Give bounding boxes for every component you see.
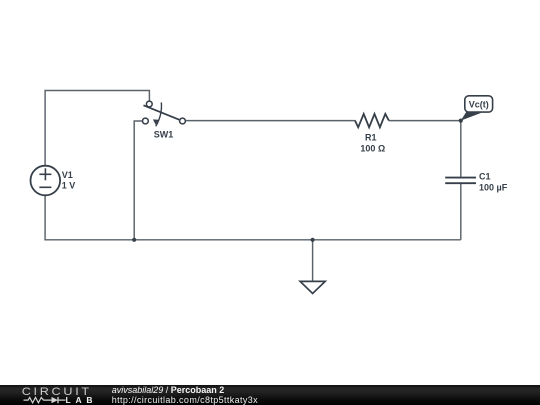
junction dot ground bottom rail bbox=[311, 238, 315, 242]
svg-text:C1: C1 bbox=[479, 172, 491, 182]
wire capacitor C1 bottom plate to bottom rail bbox=[460, 183, 462, 240]
svg-text:R1: R1 bbox=[365, 133, 377, 143]
wire top-left loop from V1 to switch common bbox=[45, 91, 149, 166]
footer bar bbox=[0, 385, 540, 405]
wire resistor R1 to node Vc bbox=[389, 120, 461, 122]
voltage source V1 circle bbox=[31, 166, 61, 196]
probe flag Vc(t) box bbox=[465, 96, 493, 112]
wire switch right throw to resistor R1 bbox=[185, 120, 355, 122]
switch SW1 common terminal circle bbox=[146, 101, 152, 107]
capacitor C1 plates bbox=[445, 178, 476, 184]
svg-text:Vc(t): Vc(t) bbox=[469, 99, 489, 109]
switch SW1 arrowhead bbox=[153, 119, 159, 125]
svg-text:http://circuitlab.com/c8tp5ttk: http://circuitlab.com/c8tp5ttkaty3x bbox=[112, 395, 258, 405]
svg-text:LAB: LAB bbox=[66, 395, 98, 405]
switch SW1 actuation arc bbox=[156, 102, 162, 126]
footer logo diode bbox=[52, 397, 66, 403]
switch SW1 left throw terminal circle bbox=[143, 118, 149, 124]
wire node Vc down to capacitor C1 top plate bbox=[460, 121, 462, 178]
wire switch left throw stub and vertical to bottom rail bbox=[134, 121, 142, 240]
resistor R1 zigzag body bbox=[355, 114, 389, 127]
svg-text:100 µF: 100 µF bbox=[479, 183, 508, 193]
switch SW1 blade bbox=[144, 105, 180, 120]
svg-text:avivsabilal29 / Percobaan 2: avivsabilal29 / Percobaan 2 bbox=[112, 385, 225, 395]
svg-text:100 Ω: 100 Ω bbox=[360, 144, 385, 154]
wire V1 bottom to bottom rail bbox=[44, 195, 46, 240]
footer logo resistor zigzag bbox=[24, 397, 52, 402]
voltage source V1 minus sign bbox=[39, 186, 51, 188]
ground stub wire bbox=[312, 240, 314, 282]
svg-text:SW1: SW1 bbox=[154, 129, 174, 139]
svg-text:1 V: 1 V bbox=[62, 180, 76, 190]
node Vc junction dot bbox=[459, 119, 463, 123]
svg-text:V1: V1 bbox=[62, 170, 73, 180]
voltage source V1 plus sign bbox=[39, 168, 51, 180]
junction dot left bottom rail bbox=[132, 238, 136, 242]
probe flag Vc(t) pointer wedge bbox=[461, 112, 482, 121]
switch SW1 right throw terminal circle bbox=[180, 118, 186, 124]
wire bottom rail bbox=[44, 239, 460, 241]
ground symbol triangle bbox=[300, 281, 325, 293]
